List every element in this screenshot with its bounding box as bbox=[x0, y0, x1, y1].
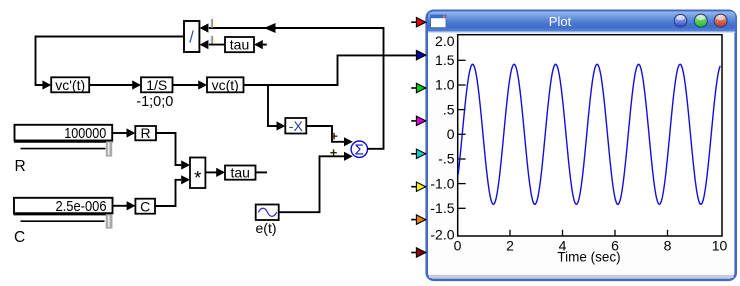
wire 1/S to vc(t) bbox=[173, 84, 200, 86]
wire R block to multiplier upper input bbox=[156, 133, 181, 165]
block C (variable) bbox=[135, 198, 155, 214]
y axis ticks bbox=[458, 60, 465, 208]
block vc(t) bbox=[207, 77, 244, 93]
svg-text:-1.5: -1.5 bbox=[430, 200, 454, 216]
svg-text:vc(t): vc(t) bbox=[212, 77, 239, 93]
svg-text:2.0: 2.0 bbox=[435, 33, 455, 49]
stub wire at tau output bbox=[256, 171, 268, 173]
block e(t) (sine source) bbox=[256, 205, 279, 221]
svg-text:+: + bbox=[330, 145, 338, 160]
x axis labels bbox=[454, 237, 728, 253]
svg-text:R: R bbox=[141, 125, 151, 141]
wire slider R to R block bbox=[113, 132, 128, 134]
svg-text:0: 0 bbox=[447, 126, 455, 142]
svg-text:2.5e-006: 2.5e-006 bbox=[56, 198, 107, 215]
wire tau to divide block input 2 bbox=[209, 44, 225, 46]
window frame bbox=[427, 11, 736, 280]
block tau (upper) bbox=[225, 37, 254, 53]
summer (sigma) bbox=[351, 141, 367, 159]
block * (multiplier) bbox=[190, 158, 205, 189]
svg-text:Σ: Σ bbox=[355, 142, 364, 159]
window icon (mini window) bbox=[431, 15, 446, 28]
wire e(t) to summer lower input bbox=[279, 156, 344, 212]
svg-text:1/S: 1/S bbox=[146, 77, 167, 93]
svg-text:tau: tau bbox=[230, 165, 249, 181]
signal trace (sine wave) bbox=[458, 64, 720, 204]
arrowhead into -X bbox=[277, 121, 286, 130]
arrowhead into tau right-side input bbox=[254, 40, 263, 49]
block vc'(t) bbox=[51, 77, 89, 93]
svg-text:R: R bbox=[15, 158, 26, 175]
arrowhead into summer (lower) bbox=[344, 152, 353, 161]
slider R value box bbox=[14, 125, 113, 142]
titlebar button (green) bbox=[694, 14, 707, 27]
slider C handle bbox=[106, 214, 113, 228]
wire C block to multiplier lower input bbox=[155, 180, 181, 206]
svg-text:2: 2 bbox=[506, 237, 514, 253]
arrowhead into divide block input 2 bbox=[200, 40, 209, 49]
svg-text:/: / bbox=[189, 29, 194, 47]
block 1/S (integrator) bbox=[141, 77, 173, 93]
svg-text:-.5: -.5 bbox=[438, 151, 455, 167]
svg-text:1.5: 1.5 bbox=[435, 52, 455, 68]
wire summer output feedback up to divide block bbox=[209, 28, 384, 149]
wire -X output to summer upper input bbox=[306, 126, 344, 142]
svg-text:-2.0: -2.0 bbox=[430, 227, 454, 243]
svg-text:-1.0: -1.0 bbox=[430, 175, 454, 191]
scope input port 4 (magenta) bbox=[411, 116, 426, 125]
block / (divide) bbox=[184, 21, 199, 52]
svg-text:tau: tau bbox=[230, 37, 249, 53]
svg-text:C: C bbox=[140, 198, 150, 214]
arrowhead into multiplier (upper) bbox=[181, 160, 190, 169]
event tick mark 1 (divide input) bbox=[211, 19, 213, 28]
arrowhead into 1/S bbox=[132, 80, 141, 89]
mid-wire arrowhead on feedback wire bbox=[264, 23, 276, 33]
slider C value box bbox=[14, 198, 113, 215]
scope input port 3 (green) bbox=[411, 83, 426, 92]
wire: divide output feedback to vc'(t) input bbox=[36, 37, 185, 86]
arrowhead into summer (upper) bbox=[344, 137, 353, 146]
wire branch vc(t) down to -X bbox=[268, 85, 277, 126]
arrowhead into multiplier (lower) bbox=[181, 175, 190, 184]
svg-text:10: 10 bbox=[712, 237, 728, 253]
arrowhead into divide block input 1 bbox=[200, 23, 209, 32]
slider R track bbox=[21, 148, 106, 150]
scope input port 6 (yellow) bbox=[411, 182, 426, 191]
wire multiplier to tau block bbox=[205, 171, 216, 173]
y axis labels bbox=[430, 33, 454, 243]
svg-text:C: C bbox=[14, 229, 25, 246]
block tau (lower) bbox=[225, 165, 256, 181]
scope input port 2 (navy) bbox=[416, 50, 425, 59]
scope input port 7 (orange) bbox=[411, 215, 426, 224]
x axis ticks bbox=[510, 230, 668, 236]
wire vc(t) output to scope port 2 bbox=[244, 55, 418, 85]
svg-text:Plot: Plot bbox=[549, 14, 572, 29]
svg-text:-1;0;0: -1;0;0 bbox=[136, 94, 173, 110]
scope input port 5 (cyan) bbox=[411, 149, 426, 158]
titlebar button (red) bbox=[714, 14, 727, 27]
block R (variable) bbox=[135, 125, 156, 141]
svg-text:+: + bbox=[330, 129, 338, 144]
stub wire at tau input bbox=[263, 44, 267, 46]
svg-text:8: 8 bbox=[664, 237, 672, 253]
wire vc'(t) to 1/S bbox=[89, 84, 133, 86]
svg-text:100000: 100000 bbox=[64, 125, 106, 142]
svg-text:*: * bbox=[194, 167, 201, 188]
slider R handle bbox=[106, 141, 112, 156]
plot axes box bbox=[458, 35, 722, 236]
event tick mark 2 (divide input) bbox=[211, 36, 213, 44]
title bar bbox=[428, 12, 735, 32]
svg-text:e(t): e(t) bbox=[256, 220, 277, 236]
scope input port 1 (red) bbox=[411, 18, 426, 27]
arrowhead into vc'(t) bbox=[42, 80, 51, 89]
scope input port 8 (maroon) bbox=[411, 248, 426, 257]
arrowhead into R block bbox=[127, 128, 136, 137]
svg-text:-X: -X bbox=[289, 118, 304, 134]
titlebar button (blue) bbox=[674, 14, 687, 27]
svg-text:Time (sec): Time (sec) bbox=[557, 250, 620, 265]
wire slider C to C block bbox=[113, 205, 128, 207]
block -X (negate) bbox=[285, 118, 306, 134]
svg-text:1.0: 1.0 bbox=[435, 77, 455, 93]
slider C track bbox=[21, 220, 105, 222]
arrowhead into tau (lower) bbox=[216, 168, 225, 177]
svg-text:vc'(t): vc'(t) bbox=[55, 77, 85, 93]
arrowhead into vc(t) bbox=[198, 80, 207, 89]
window inner bottom bevel bbox=[429, 275, 734, 278]
svg-text:.5: .5 bbox=[443, 101, 455, 117]
svg-text:0: 0 bbox=[454, 237, 462, 253]
arrowhead into C block bbox=[127, 201, 136, 210]
